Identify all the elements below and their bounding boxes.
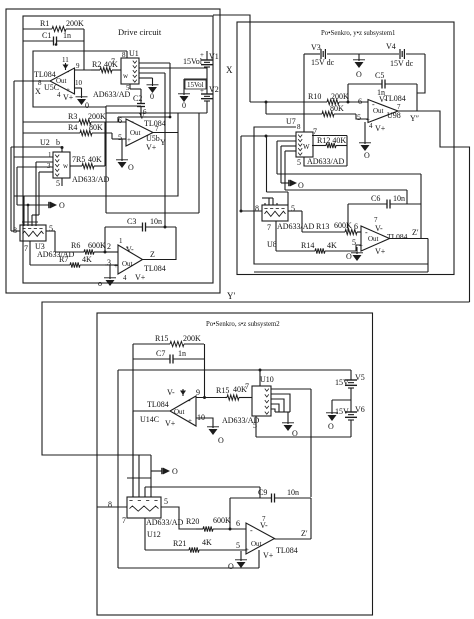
wire: ground tap between V3 V4	[358, 54, 360, 61]
svg-text:AD633/AD: AD633/AD	[277, 222, 315, 231]
svg-text:4: 4	[57, 91, 61, 99]
svg-text:R14: R14	[301, 241, 314, 250]
resistor R20 600K	[186, 516, 246, 532]
wire: U7 pin4 input	[285, 151, 296, 190]
label Drive circuit	[118, 27, 162, 37]
ground 0 below U1	[147, 85, 159, 101]
frame: drive circuit inner box	[23, 16, 213, 283]
svg-text:8: 8	[38, 79, 42, 87]
svg-text:Z: Z	[150, 250, 155, 259]
label subsystem2 title	[206, 321, 280, 328]
svg-text:Out: Out	[130, 129, 141, 137]
svg-text:R15: R15	[216, 386, 229, 395]
frame: box around U5C stage	[33, 51, 127, 107]
resistor R2 40K (to U1)	[91, 60, 121, 73]
svg-text:5: 5	[297, 158, 301, 167]
wire: U1 pin 8 stub to box top	[126, 51, 128, 58]
wire: U2 input b	[11, 138, 64, 149]
wire: inner box left edge	[117, 370, 119, 568]
svg-text:0: 0	[85, 101, 89, 110]
svg-text:O: O	[298, 181, 304, 190]
wire: V4 right leg down	[417, 54, 425, 93]
wire: U1 pin to C3 node	[139, 73, 167, 229]
svg-text:C5: C5	[375, 71, 384, 80]
wire: U5b output Y route	[14, 113, 178, 196]
wire: U14C pin 11 mark	[180, 389, 186, 396]
svg-text:6: 6	[118, 116, 122, 125]
ground O below U98	[359, 143, 371, 160]
svg-text:+: +	[188, 417, 192, 425]
wire: U7 pin1 input	[241, 135, 296, 138]
svg-text:200K: 200K	[183, 334, 201, 343]
svg-text:O: O	[328, 422, 334, 431]
wire: C2 node horizontal	[106, 105, 141, 107]
svg-text:V6: V6	[355, 405, 365, 414]
svg-text:Z′: Z′	[301, 529, 308, 538]
svg-text:7: 7	[245, 382, 249, 391]
svg-text:8: 8	[255, 204, 259, 213]
svg-text:8: 8	[297, 123, 301, 131]
output arrow O (subsystem1)	[289, 180, 304, 190]
svg-text:R4: R4	[68, 123, 77, 132]
wire: X interconnect from drive to subsystem1	[213, 15, 250, 102]
wire: ground tap V6	[332, 400, 351, 414]
svg-text:V+: V+	[263, 551, 274, 560]
svg-text:0: 0	[150, 92, 154, 101]
svg-text:3: 3	[47, 162, 51, 170]
wire: U10 pins to ground	[275, 412, 290, 424]
label X on interconnect	[226, 65, 233, 75]
wire: U14C plus pin 10 to ground	[196, 418, 213, 428]
svg-text:U5b: U5b	[146, 134, 160, 143]
svg-text:C7: C7	[156, 349, 165, 358]
svg-text:AD633/AD: AD633/AD	[37, 250, 75, 259]
wire: C6 left leg	[347, 204, 349, 232]
svg-text:+: +	[127, 136, 131, 144]
wire: Z' output subsystem2	[275, 538, 312, 540]
multiplier U10 AD633/AD	[222, 375, 274, 430]
svg-text:R20: R20	[186, 517, 199, 526]
svg-text:4K: 4K	[202, 538, 212, 547]
svg-text:V3: V3	[311, 43, 321, 52]
svg-text:X: X	[35, 87, 41, 96]
svg-text:U8: U8	[267, 240, 277, 249]
op-amp U98 TL084 (output Y'', points right)	[357, 94, 419, 133]
ground O below U14C	[207, 427, 224, 445]
wire: U3 bottom pin to R7	[29, 241, 31, 265]
wire: U2 top pin stub	[61, 147, 63, 152]
resistor R4 80K	[23, 123, 112, 136]
svg-text:R13: R13	[316, 222, 329, 231]
svg-text:U12: U12	[147, 530, 161, 539]
svg-text:V1: V1	[209, 52, 219, 61]
svg-text:Y: Y	[160, 138, 166, 147]
svg-text:C2: C2	[133, 94, 142, 103]
svg-text:V+: V+	[375, 124, 386, 133]
capacitor C6 10n (feedback)	[348, 194, 421, 209]
wire: C5 right leg to output node	[416, 84, 418, 111]
svg-text:V+: V+	[63, 93, 74, 102]
wire: C3 left leg to minus node	[104, 227, 107, 254]
svg-text:AD633/AD: AD633/AD	[146, 518, 184, 527]
svg-text:O: O	[364, 151, 370, 160]
svg-text:7: 7	[111, 57, 115, 66]
svg-text:5: 5	[236, 541, 240, 550]
svg-text:+: +	[200, 87, 204, 95]
svg-text:7: 7	[313, 127, 317, 136]
wire: U5C output X to left bus	[14, 80, 50, 82]
wire: U12 right pin 5	[161, 507, 196, 529]
svg-text:15V dc: 15V dc	[390, 59, 414, 68]
output arrow O (drive mid)	[49, 201, 65, 210]
wire: Z output	[143, 259, 177, 261]
svg-text:Y″: Y″	[410, 114, 419, 123]
wire: U5b plus to ground	[121, 139, 123, 161]
ground O between V3 V4	[353, 60, 365, 79]
wire: O arrow feed subsystem2	[151, 470, 162, 472]
svg-text:TL084: TL084	[34, 70, 56, 79]
svg-text:R6: R6	[71, 241, 80, 250]
wire: output O arrow feed	[17, 204, 49, 206]
wire: C9 left leg to minus node	[229, 498, 232, 531]
wire: C5 left leg to minus node	[265, 84, 350, 104]
resistor R3 200K	[23, 112, 126, 125]
svg-text:V5: V5	[355, 373, 365, 382]
svg-text:V+: V+	[165, 419, 176, 428]
svg-text:40K: 40K	[88, 155, 102, 164]
svg-text:200K: 200K	[88, 112, 106, 121]
node: R1/C1 junction	[55, 43, 58, 46]
wire: Y' interconnect wire	[42, 302, 470, 455]
battery V3 15V dc	[304, 43, 350, 67]
wire: R13 to minus	[357, 229, 361, 232]
svg-text:6: 6	[236, 519, 240, 528]
wire: U8 bottom to R14	[275, 221, 277, 251]
svg-text:Out: Out	[368, 235, 379, 243]
wire: U10 top stub to rail	[259, 369, 262, 387]
output arrow O (subsystem2)	[162, 467, 178, 476]
frame: subsystem1 outer box	[237, 22, 454, 275]
svg-text:5: 5	[56, 179, 60, 188]
wire: U8 right pin 5	[288, 211, 302, 232]
wire: U10 pin1 leg down to C9 node	[310, 389, 312, 497]
wire: feedback leg from U1 pin	[169, 63, 172, 118]
svg-text:V2: V2	[209, 85, 219, 94]
svg-text:-: -	[188, 396, 191, 405]
wire: inner box bottom	[118, 567, 259, 569]
svg-text:7: 7	[24, 244, 28, 253]
svg-text:C1: C1	[42, 31, 51, 40]
svg-text:TL084: TL084	[384, 94, 406, 103]
frame: subsystem1 inner box	[254, 127, 428, 264]
resistor R16 40K to U10	[216, 382, 252, 400]
svg-text:-: -	[250, 526, 253, 535]
svg-text:8: 8	[108, 500, 112, 509]
wire: U7 pin3 input	[281, 146, 296, 183]
svg-text:1: 1	[119, 237, 123, 245]
svg-text:TL084: TL084	[144, 264, 166, 273]
wire: plus to ground subsystem2	[240, 551, 242, 561]
svg-text:+: +	[200, 51, 204, 59]
wire: V1 top stub	[206, 51, 208, 60]
capacitor C2 (on vertical feedback wire)	[130, 89, 147, 117]
multiplier U7 AD633/AD	[286, 117, 345, 167]
svg-text:AD633/AD: AD633/AD	[72, 175, 110, 184]
op-amp U14C TL084 (points left)	[140, 388, 205, 428]
svg-text:4K: 4K	[327, 241, 337, 250]
wire: U14C output	[133, 410, 170, 412]
wire: Y feedback bus vertical	[10, 147, 12, 231]
wire: U10 right pin 2	[271, 394, 290, 412]
svg-text:R1: R1	[40, 19, 49, 28]
wire: U10 right pin 4	[271, 404, 279, 412]
svg-text:w: w	[123, 72, 129, 80]
wire: R6 to op-amp minus	[105, 242, 118, 252]
svg-text:5: 5	[118, 133, 122, 142]
wire: C3 right leg to output	[175, 227, 177, 260]
wire: U8 top pin stubs	[262, 198, 277, 205]
wire: U5C pin 11 stub with V- mark	[63, 63, 69, 70]
svg-text:V4: V4	[386, 42, 396, 51]
svg-text:R21: R21	[173, 539, 186, 548]
svg-text:5: 5	[164, 497, 168, 506]
battery V6 15V	[335, 405, 365, 420]
multiplier U12 AD633/AD	[108, 497, 184, 539]
wire: U5C minus input pin 9	[75, 69, 92, 71]
resistor R21 4K	[145, 538, 246, 553]
svg-text:8: 8	[122, 51, 126, 59]
wire: plus input jog	[356, 114, 368, 119]
svg-text:X: X	[226, 65, 233, 75]
wire: O arrow feed subsystem1	[281, 182, 289, 184]
wire: R3/R4 junction leg to R5	[104, 122, 106, 166]
svg-text:TL084: TL084	[387, 232, 408, 241]
wire: U1 bottom pin 5 stub	[129, 84, 131, 89]
svg-text:w: w	[63, 162, 69, 170]
wire: V2 bottom to V+ rail	[206, 101, 208, 113]
multiplier U2 AD633/AD	[47, 151, 110, 188]
svg-text:Y′: Y′	[227, 291, 235, 301]
wire: U98 output Y'' route to subsystem2	[398, 111, 470, 302]
svg-text:Out: Out	[174, 408, 185, 416]
svg-text:1n: 1n	[63, 31, 71, 40]
svg-text:-: -	[131, 117, 134, 126]
svg-text:Z′: Z′	[412, 228, 419, 237]
svg-text:V+: V+	[375, 247, 386, 256]
wire: U2 left pin 4	[32, 172, 53, 226]
wire: subsystem1 bottom inner line	[254, 271, 428, 273]
wire: R14 jog to plus	[356, 245, 361, 251]
wire: R15/C7 left leg to output bus	[132, 344, 134, 497]
svg-text:7: 7	[122, 516, 126, 525]
svg-text:C6: C6	[371, 194, 380, 203]
capacitor C3 10n (feedback)	[105, 217, 176, 232]
svg-text:11: 11	[62, 56, 69, 64]
svg-text:1: 1	[48, 151, 52, 159]
wire: U2 left pin 1 from X bus	[14, 156, 53, 158]
ground O below subsystem2 Z' op-amp	[228, 560, 247, 571]
ground O near V6	[326, 413, 338, 431]
svg-text:Po•Senkro, y•z subsystem1: Po•Senkro, y•z subsystem1	[321, 30, 395, 37]
svg-text:O: O	[292, 429, 298, 438]
wire: V+ rail right leg	[106, 113, 199, 213]
svg-text:4: 4	[369, 122, 373, 130]
svg-text:R15: R15	[155, 334, 168, 343]
wire: mid step to U8	[267, 136, 289, 205]
svg-text:6: 6	[358, 97, 362, 106]
svg-text:+: +	[245, 546, 249, 554]
svg-text:6: 6	[354, 222, 358, 231]
svg-text:TL084: TL084	[147, 400, 169, 409]
wire: R15/C7 right leg to minus node	[203, 344, 206, 399]
wire: X bus vertical left	[13, 81, 15, 231]
svg-text:V-: V-	[375, 224, 383, 233]
svg-text:200K: 200K	[66, 19, 84, 28]
svg-text:o: o	[98, 279, 102, 288]
svg-text:200K: 200K	[331, 92, 349, 101]
resistor R10 200K	[250, 92, 368, 105]
svg-text:+: +	[359, 242, 363, 250]
wire: U3 right pin 5	[46, 231, 55, 252]
multiplier U3 AD633/AD	[13, 224, 75, 259]
svg-text:R7: R7	[59, 255, 68, 264]
wire: U10 bottom stub to battery rail	[255, 416, 257, 437]
wire: U1 pin to C2 node	[139, 62, 170, 64]
wire: U1 V+ pin to V1 column	[139, 67, 207, 69]
svg-text:7R5: 7R5	[72, 155, 85, 164]
svg-text:600K: 600K	[334, 221, 352, 230]
svg-text:V+: V+	[135, 273, 146, 282]
svg-text:R2: R2	[92, 60, 101, 69]
svg-text:U2: U2	[40, 138, 50, 147]
battery V1 15Vol	[183, 51, 219, 67]
svg-text:O: O	[228, 562, 234, 571]
svg-text:9: 9	[196, 388, 200, 397]
svg-text:W: W	[303, 143, 310, 151]
wire: U12 top pin feeds	[133, 411, 151, 497]
capacitor C7 1n (feedback)	[133, 349, 204, 364]
wire: U10 right pin 1	[271, 388, 311, 390]
label subsystem1 title	[321, 30, 395, 37]
wire: U7 W pin to R12 loop	[312, 136, 347, 167]
svg-text:V+: V+	[146, 143, 157, 152]
svg-text:-: -	[365, 228, 368, 237]
svg-text:15V: 15V	[335, 378, 349, 387]
wire: U3 top pin feeds	[22, 196, 38, 226]
svg-text:7: 7	[397, 103, 401, 111]
wire: 80K vertical source	[265, 102, 267, 114]
wire: feedback to C6 node lower	[285, 190, 407, 204]
wire: C6 right leg	[420, 204, 422, 238]
svg-text:2: 2	[107, 242, 111, 251]
svg-text:b: b	[56, 138, 60, 147]
wire: R1/C1 right leg down to pin9 node	[83, 29, 85, 70]
svg-text:600K: 600K	[213, 516, 231, 525]
wire: C9 right leg to output	[310, 498, 312, 539]
capacitor C9 10n (feedback)	[230, 488, 311, 503]
svg-text:-: -	[67, 67, 70, 76]
wire: battery rail y437	[256, 436, 351, 438]
battery V5 15V	[335, 370, 365, 388]
svg-text:Out: Out	[122, 260, 133, 268]
wire: ground tap between V1 and V2	[184, 79, 207, 95]
op-amp U5d TL084 (output Z, points right)	[114, 237, 166, 282]
wire: U3 pin 8 from X bus	[11, 230, 20, 232]
frame: subsystem2 outer box	[97, 313, 373, 615]
battery V2 15Vol (boxed label)	[185, 80, 219, 101]
svg-text:7: 7	[374, 216, 378, 224]
svg-text:5: 5	[126, 84, 130, 92]
frame: subsystem2 inner box top rail	[118, 369, 351, 371]
svg-text:10n: 10n	[150, 217, 162, 226]
multiplier U1 AD633/AD	[93, 49, 139, 99]
frame: box around U5b stage left edge	[105, 106, 107, 213]
svg-text:15V dc: 15V dc	[311, 58, 335, 67]
wire: plus to ground subsystem1 Z'	[356, 247, 358, 254]
svg-text:5: 5	[352, 238, 356, 247]
svg-text:+: +	[66, 86, 70, 94]
capacitor C1 1n (feedback)	[23, 31, 84, 46]
svg-text:5: 5	[49, 224, 53, 233]
wire: U7 pin2 input	[277, 141, 296, 174]
svg-text:O: O	[172, 467, 178, 476]
wire: U2 left pin 2	[36, 162, 53, 226]
wire: Z' feedback into U12	[145, 487, 260, 498]
resistor R12 40K (U7 W to Z)	[312, 143, 347, 148]
wire: U12 pin stubs header	[127, 477, 151, 479]
svg-text:Out: Out	[251, 540, 262, 548]
svg-text:+: +	[114, 262, 118, 270]
capacitor C5 1n (feedback)	[348, 71, 417, 97]
svg-text:1n: 1n	[178, 349, 186, 358]
svg-text:AD633/AD: AD633/AD	[93, 90, 131, 99]
svg-text:5: 5	[291, 204, 295, 213]
svg-text:O: O	[59, 201, 65, 210]
svg-text:V-: V-	[167, 388, 175, 397]
svg-text:9: 9	[76, 62, 80, 70]
svg-text:-: -	[372, 100, 375, 109]
wire: left input bus subsystem1	[240, 136, 242, 211]
svg-text:O: O	[128, 163, 134, 172]
ground 0 below U5C	[76, 97, 90, 110]
resistor R13 600K	[302, 221, 361, 235]
battery V4 15V dc	[350, 42, 425, 68]
wire: U98 pin4 to ground	[364, 122, 366, 144]
multiplier U8 AD633/AD	[255, 204, 315, 249]
resistor 80K to plus input	[266, 104, 356, 117]
ground 0 near V2	[178, 94, 190, 110]
svg-text:U10: U10	[260, 375, 274, 384]
wire: U14C minus pin 9	[196, 397, 225, 399]
wire: U8 pin 8 input	[240, 210, 263, 213]
svg-text:O: O	[218, 436, 224, 445]
wire: R7 to op-amp plus	[105, 258, 118, 267]
svg-text:Po•Senkro, s•z subsystem2: Po•Senkro, s•z subsystem2	[206, 321, 280, 328]
ground O below U5b	[116, 160, 134, 172]
svg-text:7: 7	[267, 223, 271, 232]
svg-text:5: 5	[357, 113, 361, 122]
wire: V5 to V6	[350, 388, 352, 412]
wire: V6 bottom to rail	[350, 420, 352, 437]
svg-text:600K: 600K	[88, 241, 106, 250]
wire: U1 pin to ground	[139, 78, 153, 86]
resistor R15 200K (feedback)	[133, 334, 204, 347]
svg-text:C9: C9	[258, 488, 267, 497]
svg-text:80K: 80K	[330, 104, 344, 113]
wire: V+ leg from op-amp	[258, 550, 260, 568]
svg-text:15V: 15V	[335, 407, 349, 416]
wire: V1 to V2	[206, 67, 208, 94]
